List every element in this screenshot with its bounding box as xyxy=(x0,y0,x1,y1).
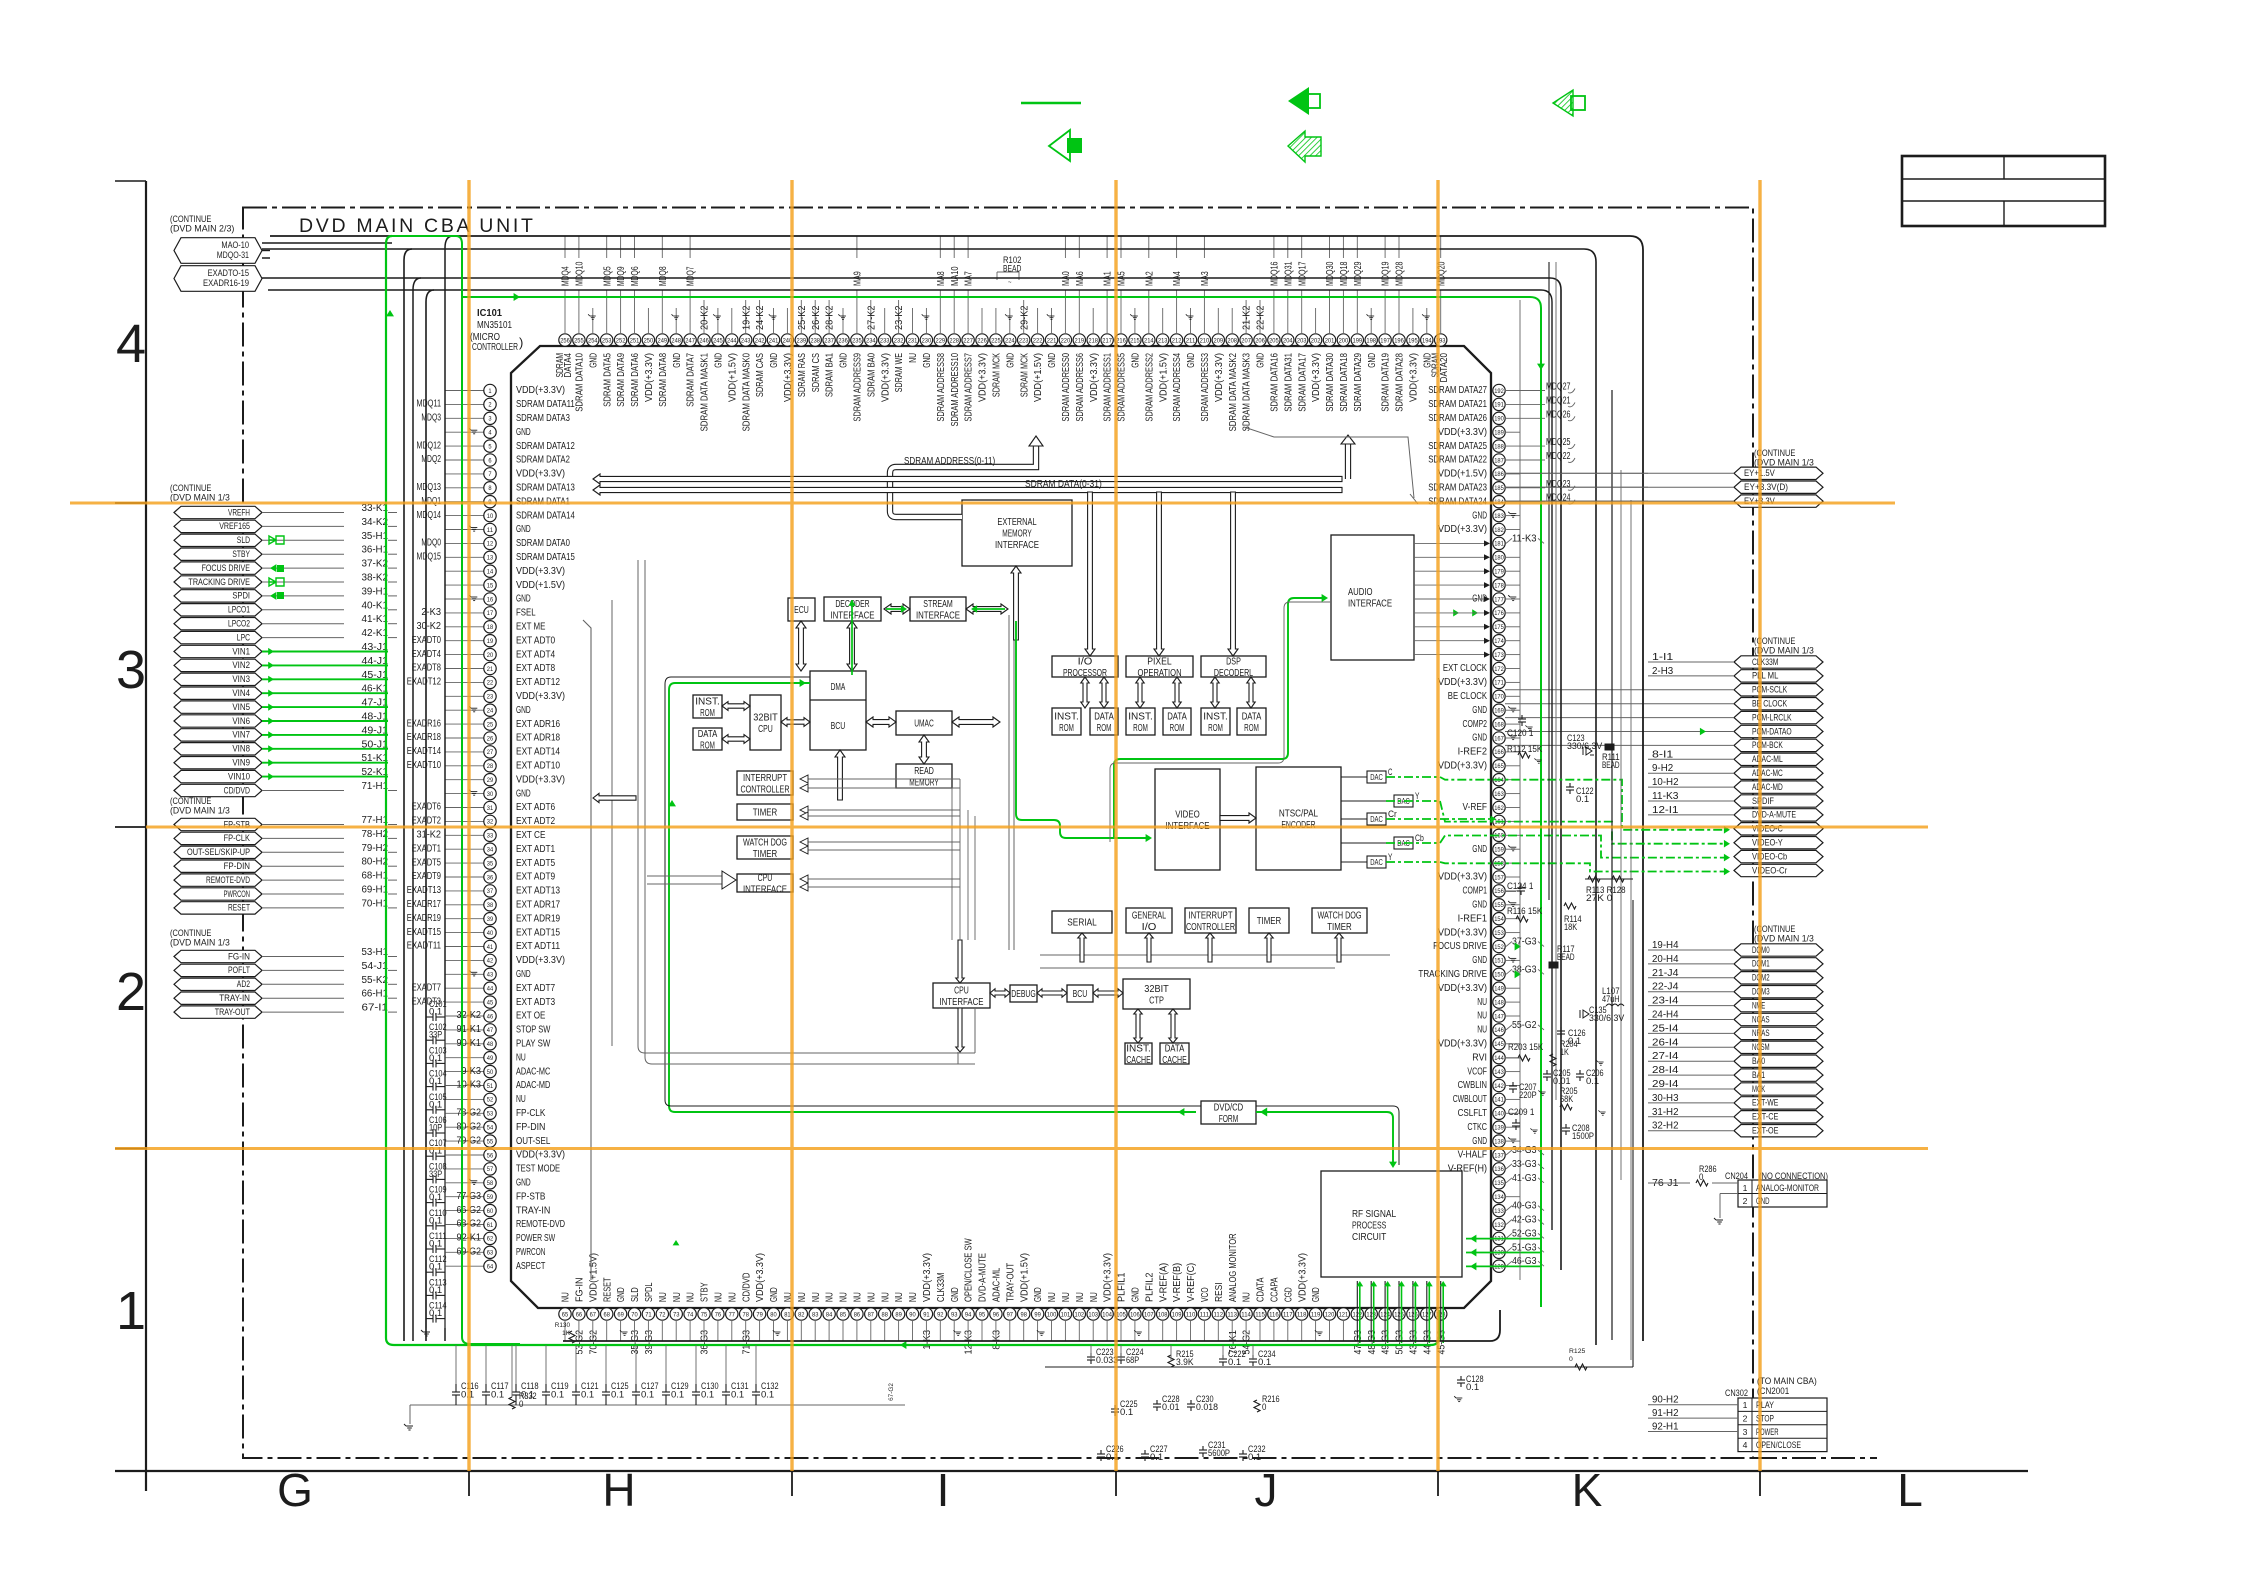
pin 227 xyxy=(962,334,974,346)
svg-text:37: 37 xyxy=(487,888,494,895)
svg-text:47: 47 xyxy=(487,1027,494,1034)
pin 56 xyxy=(484,1149,496,1161)
svg-text:BE CLOCK: BE CLOCK xyxy=(1448,690,1487,702)
svg-text:VDD(+3.3V): VDD(+3.3V) xyxy=(1438,523,1487,535)
svg-text:23-K2: 23-K2 xyxy=(894,305,905,330)
svg-text:EXADR18: EXADR18 xyxy=(407,732,442,743)
svg-text:22-J4: 22-J4 xyxy=(1652,982,1679,993)
svg-text:68: 68 xyxy=(604,1311,611,1318)
svg-text:99: 99 xyxy=(1034,1311,1041,1318)
block TIMER 2 xyxy=(1249,908,1289,933)
svg-text:1K: 1K xyxy=(562,1330,571,1337)
svg-text:32-H2: 32-H2 xyxy=(1652,1121,1679,1132)
connector FOCUS DRIVE xyxy=(174,562,262,574)
pin 151 xyxy=(1493,954,1505,966)
green legend icon open arrow with solid square xyxy=(1049,130,1070,161)
svg-text:209: 209 xyxy=(1214,337,1224,344)
block INST ROM 2 xyxy=(1052,708,1081,735)
svg-text:GND: GND xyxy=(1472,843,1487,855)
svg-text:MDQ22: MDQ22 xyxy=(1546,451,1571,462)
pin 16 xyxy=(484,593,496,605)
svg-text:185: 185 xyxy=(1494,485,1504,492)
svg-text:MN35101: MN35101 xyxy=(477,320,512,331)
svg-text:I: I xyxy=(937,1464,950,1516)
svg-text:SDRAM ADDRESS(0-11): SDRAM ADDRESS(0-11) xyxy=(904,456,995,467)
svg-text:35-H1: 35-H1 xyxy=(362,531,389,542)
svg-text:23: 23 xyxy=(487,694,494,701)
connector MAO-10 / MDQO-31 xyxy=(174,238,262,264)
pin 201 xyxy=(1323,334,1335,346)
connector BA0 xyxy=(1734,1055,1823,1067)
svg-text:GND: GND xyxy=(1186,353,1197,368)
svg-text:MDQ31: MDQ31 xyxy=(1283,261,1294,286)
svg-text:BCU: BCU xyxy=(1073,989,1088,1000)
svg-text:10-H2: 10-H2 xyxy=(1652,777,1679,788)
svg-text:27-K2: 27-K2 xyxy=(866,305,877,330)
svg-text:59: 59 xyxy=(487,1194,494,1201)
svg-text:EXT-CE: EXT-CE xyxy=(1752,1112,1778,1123)
block DAC Cr xyxy=(1367,813,1386,825)
pin 180 xyxy=(1493,551,1505,563)
svg-text:VDD(+3.3V): VDD(+3.3V) xyxy=(978,353,989,402)
svg-text:ROM: ROM xyxy=(1097,723,1112,734)
svg-text:MDQ8: MDQ8 xyxy=(658,266,669,286)
svg-text:VDD(+3.3V): VDD(+3.3V) xyxy=(1297,1253,1308,1302)
svg-text:112: 112 xyxy=(1214,1311,1224,1318)
pin 8 xyxy=(484,482,496,494)
svg-text:READ: READ xyxy=(914,766,934,777)
block VIDEO INTERFACE xyxy=(1155,769,1220,870)
svg-text:EXT ADR17: EXT ADR17 xyxy=(516,899,560,911)
serial/general rails xyxy=(1040,954,1390,956)
svg-text:171: 171 xyxy=(1494,680,1504,687)
svg-text:CPU: CPU xyxy=(954,985,969,996)
pin 25 xyxy=(484,718,496,730)
svg-text:149: 149 xyxy=(1494,986,1504,993)
pin 225 xyxy=(990,334,1002,346)
svg-text:MDQ7: MDQ7 xyxy=(686,266,697,286)
svg-text:134: 134 xyxy=(1494,1194,1504,1201)
pin 47 xyxy=(484,1024,496,1036)
connector VIN5 xyxy=(174,701,262,713)
connector NCAS xyxy=(1734,1013,1823,1025)
svg-text:SPDIF: SPDIF xyxy=(1752,796,1774,807)
connector ADAC-MD xyxy=(1734,781,1823,793)
block 32BIT CPU xyxy=(750,695,781,750)
connector NCSM xyxy=(1734,1041,1823,1053)
svg-text:26-K2: 26-K2 xyxy=(811,305,822,330)
svg-text:29: 29 xyxy=(487,777,494,784)
orange grid vertical 4 xyxy=(1436,180,1439,1471)
bus arrow DEBUG-BCU xyxy=(1037,989,1067,997)
svg-text:0.1: 0.1 xyxy=(1586,1076,1599,1086)
svg-text:0.1: 0.1 xyxy=(1120,1407,1133,1417)
svg-text:2: 2 xyxy=(116,962,146,1022)
pin 237 xyxy=(823,334,835,346)
svg-text:11-K3: 11-K3 xyxy=(1652,791,1679,802)
orange grid vertical 5 xyxy=(1758,180,1761,1471)
svg-text:MDQ27: MDQ27 xyxy=(1546,382,1571,393)
pin 21 xyxy=(484,662,496,674)
pin 50 xyxy=(484,1065,496,1077)
svg-text:EXT ADT13: EXT ADT13 xyxy=(516,885,560,897)
svg-text:SDRAM CS: SDRAM CS xyxy=(811,353,822,392)
svg-text:SDRAM DATA30: SDRAM DATA30 xyxy=(1325,353,1336,412)
svg-text:0.1: 0.1 xyxy=(1150,1452,1163,1462)
pin 251 xyxy=(628,334,640,346)
pin 13 xyxy=(484,551,496,563)
pin 102 xyxy=(1073,1308,1085,1320)
svg-text:NU: NU xyxy=(516,1051,526,1063)
svg-text:NU: NU xyxy=(825,1292,836,1302)
connector TRAY-OUT xyxy=(174,1006,262,1018)
svg-text:EXT-OE: EXT-OE xyxy=(1752,1126,1778,1137)
pin 45 xyxy=(484,996,496,1008)
connector MCK xyxy=(1734,1083,1823,1095)
svg-text:15: 15 xyxy=(487,582,494,589)
svg-text:121: 121 xyxy=(1339,1311,1349,1318)
block DAC C xyxy=(1367,771,1386,783)
svg-text:EXADT13: EXADT13 xyxy=(407,885,442,896)
pin 120 xyxy=(1323,1308,1335,1320)
pin 123 xyxy=(1365,1308,1377,1320)
svg-text:GND: GND xyxy=(1472,954,1487,966)
svg-text:INST.: INST. xyxy=(695,696,720,707)
connector EY+3.3V xyxy=(1734,495,1823,507)
svg-text:ENCODER: ENCODER xyxy=(1281,820,1315,831)
pin 162 xyxy=(1493,801,1505,813)
pin 226 xyxy=(976,334,988,346)
svg-text:EXADR19: EXADR19 xyxy=(407,913,442,924)
pin 197 xyxy=(1379,334,1391,346)
bus arrow head SDRAM ADDRESS up xyxy=(1029,436,1043,446)
pin 153 xyxy=(1493,926,1505,938)
pin 181 xyxy=(1493,537,1505,549)
svg-text:0.1: 0.1 xyxy=(1576,794,1589,804)
pin 155 xyxy=(1493,899,1505,911)
block AUDIO INTERFACE xyxy=(1331,535,1414,660)
pin 214 xyxy=(1143,334,1155,346)
pin 3 xyxy=(484,412,496,424)
svg-text:12-K3: 12-K3 xyxy=(964,1330,975,1355)
svg-text:SPDL: SPDL xyxy=(644,1282,655,1302)
svg-text:104: 104 xyxy=(1102,1311,1112,1318)
svg-text:SDRAM DATA2: SDRAM DATA2 xyxy=(516,454,570,466)
svg-text:77: 77 xyxy=(729,1311,736,1318)
pin 115 xyxy=(1254,1308,1266,1320)
svg-text:EXT ADT12: EXT ADT12 xyxy=(516,676,560,688)
connector VREF165 xyxy=(174,520,262,532)
pin 211 xyxy=(1184,334,1196,346)
svg-text:205: 205 xyxy=(1269,337,1279,344)
svg-text:139: 139 xyxy=(1494,1125,1504,1132)
pin 221 xyxy=(1045,334,1057,346)
svg-text:196: 196 xyxy=(1394,337,1404,344)
pin 148 xyxy=(1493,996,1505,1008)
svg-text:I/O: I/O xyxy=(1142,922,1157,933)
pin 154 xyxy=(1493,913,1505,925)
svg-text:96: 96 xyxy=(993,1311,1000,1318)
small green arrows scattered xyxy=(673,1240,680,1245)
svg-text:9-K3: 9-K3 xyxy=(461,1066,481,1077)
svg-text:NU: NU xyxy=(1477,1024,1487,1036)
pin 106 xyxy=(1129,1308,1141,1320)
pin 101 xyxy=(1059,1308,1071,1320)
block STREAM INTERFACE xyxy=(910,597,966,621)
svg-text:VIN3: VIN3 xyxy=(232,674,250,685)
svg-text:ROM: ROM xyxy=(1059,723,1074,734)
svg-text:143: 143 xyxy=(1494,1069,1504,1076)
svg-text:CD/DVD: CD/DVD xyxy=(741,1273,752,1302)
svg-text:SDRAM WE: SDRAM WE xyxy=(894,353,905,392)
svg-text:177: 177 xyxy=(1494,596,1504,603)
svg-text:113: 113 xyxy=(1227,1311,1237,1318)
svg-text:CIRCUIT: CIRCUIT xyxy=(1352,1232,1386,1243)
svg-text:MDQ28: MDQ28 xyxy=(1395,261,1406,286)
svg-text:21-J4: 21-J4 xyxy=(1652,968,1679,979)
svg-text:24: 24 xyxy=(487,708,494,715)
svg-text:251: 251 xyxy=(630,337,640,344)
svg-text:33-K1: 33-K1 xyxy=(362,503,389,514)
svg-text:GND: GND xyxy=(839,353,850,368)
bus SDRAM DATA long lower xyxy=(593,485,1342,495)
pin 54 xyxy=(484,1121,496,1133)
svg-text:114: 114 xyxy=(1241,1311,1251,1318)
pin 172 xyxy=(1493,662,1505,674)
svg-text:31-K2: 31-K2 xyxy=(417,830,442,841)
block INST ROM 4 xyxy=(1201,708,1230,735)
pin 133 xyxy=(1493,1204,1505,1216)
svg-text:13: 13 xyxy=(487,555,494,562)
svg-text:AD2: AD2 xyxy=(237,979,250,990)
pin 203 xyxy=(1296,334,1308,346)
svg-text:RF SIGNAL: RF SIGNAL xyxy=(1352,1209,1396,1220)
svg-text:ROM: ROM xyxy=(1133,723,1148,734)
svg-text:40-G3: 40-G3 xyxy=(1512,1201,1537,1212)
svg-text:42-K1: 42-K1 xyxy=(362,628,389,639)
svg-text:85: 85 xyxy=(840,1311,847,1318)
svg-text:44-G3: 44-G3 xyxy=(1422,1330,1433,1355)
svg-text:WATCH DOG: WATCH DOG xyxy=(743,837,787,848)
frame zone tick left xyxy=(115,1148,146,1150)
ground of cap column xyxy=(421,1330,430,1336)
pin 66 xyxy=(573,1308,585,1320)
svg-text:18: 18 xyxy=(487,624,494,631)
pin 49 xyxy=(484,1052,496,1064)
svg-text:21: 21 xyxy=(487,666,494,673)
pin 22 xyxy=(484,676,496,688)
svg-text:GND: GND xyxy=(1472,509,1487,521)
pin 224 xyxy=(1004,334,1016,346)
svg-text:2-K3: 2-K3 xyxy=(421,607,441,618)
svg-text:EXT ADT8: EXT ADT8 xyxy=(516,662,555,674)
pin 122 xyxy=(1351,1308,1363,1320)
svg-text:DATA4: DATA4 xyxy=(563,353,574,378)
pin 57 xyxy=(484,1163,496,1175)
svg-text:COMP2: COMP2 xyxy=(1463,718,1488,730)
bus arrow into BCU bottom xyxy=(835,750,845,800)
pin 125 xyxy=(1393,1308,1405,1320)
pin 207 xyxy=(1240,334,1252,346)
svg-text:221: 221 xyxy=(1047,337,1057,344)
svg-text:245: 245 xyxy=(713,337,723,344)
svg-text:DECODERL: DECODERL xyxy=(1214,668,1254,679)
pin 2 xyxy=(484,398,496,410)
svg-text:100: 100 xyxy=(1047,1311,1057,1318)
svg-text:156: 156 xyxy=(1494,888,1504,895)
svg-text:138: 138 xyxy=(1494,1138,1504,1145)
svg-text:0.1: 0.1 xyxy=(671,1390,684,1400)
green arrow pin176 right xyxy=(1472,609,1478,616)
svg-text:SDRAM DATA0: SDRAM DATA0 xyxy=(516,537,570,549)
svg-text:48-G3: 48-G3 xyxy=(1367,1330,1378,1355)
svg-text:0.1: 0.1 xyxy=(761,1390,774,1400)
pin 110 xyxy=(1184,1308,1196,1320)
svg-text:34-G3: 34-G3 xyxy=(1512,1145,1537,1156)
pin 96 xyxy=(990,1308,1002,1320)
svg-text:FORM: FORM xyxy=(1219,1114,1239,1125)
bus SDRAM DATA up arrow right end xyxy=(1345,444,1350,479)
svg-text:LPCO1: LPCO1 xyxy=(228,605,250,616)
svg-text:MDQ0: MDQ0 xyxy=(421,538,441,549)
pin 107 xyxy=(1143,1308,1155,1320)
pin 146 xyxy=(1493,1024,1505,1036)
bus arrow IOPROC-INSTROM xyxy=(1081,677,1089,708)
pin 104 xyxy=(1101,1308,1113,1320)
svg-text:EXT ADR18: EXT ADR18 xyxy=(516,732,560,744)
svg-text:FG-IN: FG-IN xyxy=(228,951,250,962)
svg-text:ADAC-MD: ADAC-MD xyxy=(1752,782,1783,793)
pin 41 xyxy=(484,940,496,952)
svg-text:EXT ADT1: EXT ADT1 xyxy=(516,843,555,855)
pin 233 xyxy=(879,334,891,346)
pin 79 xyxy=(753,1308,765,1320)
connector PWRCON xyxy=(174,888,262,900)
block NTSC/PAL ENCODER xyxy=(1256,767,1341,870)
svg-text:229: 229 xyxy=(936,337,946,344)
pin 134 xyxy=(1493,1191,1505,1203)
svg-text:179: 179 xyxy=(1494,569,1504,576)
svg-text:11-K3: 11-K3 xyxy=(1512,533,1537,544)
svg-text:MDQ21: MDQ21 xyxy=(1546,395,1571,406)
svg-text:5600P: 5600P xyxy=(1208,1448,1230,1458)
pin 152 xyxy=(1493,940,1505,952)
pin 35 xyxy=(484,857,496,869)
svg-text:INTERFACE: INTERFACE xyxy=(1348,599,1392,610)
svg-text:MDQ30: MDQ30 xyxy=(1325,261,1336,286)
pin 95 xyxy=(976,1308,988,1320)
svg-text:GND: GND xyxy=(1131,353,1142,368)
svg-text:218: 218 xyxy=(1088,337,1098,344)
svg-text:NU: NU xyxy=(1075,1292,1086,1302)
svg-text:188: 188 xyxy=(1494,443,1504,450)
svg-text:MDQ25: MDQ25 xyxy=(1546,437,1571,448)
svg-text:BEAD: BEAD xyxy=(1602,760,1620,770)
svg-text:GND: GND xyxy=(616,1287,627,1302)
green arrow down on right green trunk xyxy=(1537,364,1545,370)
pin 40 xyxy=(484,926,496,938)
svg-text:INTERFACE: INTERFACE xyxy=(916,610,960,621)
svg-text:254: 254 xyxy=(588,337,598,344)
svg-text:29-I4: 29-I4 xyxy=(1652,1079,1679,1090)
svg-text:PCM-SCLK: PCM-SCLK xyxy=(1752,685,1788,696)
svg-text:SLD: SLD xyxy=(237,535,250,546)
svg-text:FP-CLK: FP-CLK xyxy=(516,1107,545,1119)
pin 150 xyxy=(1493,968,1505,980)
svg-text:NU: NU xyxy=(1242,1292,1253,1302)
bus arrow INSTROM-CPU xyxy=(722,702,750,711)
pin 39 xyxy=(484,913,496,925)
svg-text:94: 94 xyxy=(965,1311,972,1318)
svg-text:79-H2: 79-H2 xyxy=(362,843,389,854)
svg-text:EXT ADT9: EXT ADT9 xyxy=(516,871,555,883)
svg-text:INST.: INST. xyxy=(1128,711,1153,722)
pin 179 xyxy=(1493,565,1505,577)
svg-text:CONTROLLER: CONTROLLER xyxy=(472,342,518,353)
connector TRAY-IN xyxy=(174,992,262,1004)
svg-text:NU: NU xyxy=(727,1292,738,1302)
connector BA1 xyxy=(1734,1069,1823,1081)
pin 10 xyxy=(484,509,496,521)
block PIXEL OPERATION xyxy=(1126,656,1193,677)
svg-text:70-H1: 70-H1 xyxy=(362,898,389,909)
block READ MEMORY xyxy=(896,764,952,788)
svg-text:53: 53 xyxy=(487,1111,494,1118)
connector SPDI xyxy=(174,590,262,602)
svg-text:C120 1: C120 1 xyxy=(1507,728,1533,738)
svg-text:148: 148 xyxy=(1494,999,1504,1006)
svg-text:VDD(+3.3V): VDD(+3.3V) xyxy=(1438,1038,1487,1050)
pin 229 xyxy=(934,334,946,346)
svg-text:SDRAM DATA29: SDRAM DATA29 xyxy=(1353,353,1364,412)
svg-text:200: 200 xyxy=(1339,337,1349,344)
bus arrow up into block xyxy=(1145,933,1153,962)
orange grid vertical 2 xyxy=(790,180,793,1471)
connector FP-DIN xyxy=(174,860,262,872)
svg-text:41-G3: 41-G3 xyxy=(1512,1173,1537,1184)
svg-text:27: 27 xyxy=(487,749,494,756)
pin 223 xyxy=(1018,334,1030,346)
svg-text:73: 73 xyxy=(673,1311,680,1318)
pin 218 xyxy=(1087,334,1099,346)
svg-text:SDRAM ADDRESS0: SDRAM ADDRESS0 xyxy=(1061,353,1072,422)
svg-text:SDRAM RAS: SDRAM RAS xyxy=(797,353,808,397)
vertical stubs to bottom passives xyxy=(1090,1345,1092,1360)
svg-text:GND: GND xyxy=(516,968,531,980)
svg-text:109: 109 xyxy=(1172,1311,1182,1318)
connector VIN4 xyxy=(174,687,262,699)
connector ADAC-ML xyxy=(1734,753,1823,765)
svg-text:TRAY-IN: TRAY-IN xyxy=(516,1204,550,1216)
connector LPCO2 xyxy=(174,618,262,630)
pin 143 xyxy=(1493,1065,1505,1077)
svg-text:FG-IN: FG-IN xyxy=(575,1278,586,1303)
svg-text:239: 239 xyxy=(797,337,807,344)
svg-text:120: 120 xyxy=(1325,1311,1335,1318)
pin 166 xyxy=(1493,746,1505,758)
pin 193 xyxy=(1435,334,1447,346)
pin 58 xyxy=(484,1177,496,1189)
svg-text:EXADT10: EXADT10 xyxy=(407,760,442,771)
green DAC output routes to VIDEO hexagons xyxy=(1386,777,1726,830)
svg-text:L: L xyxy=(1897,1464,1923,1516)
svg-text:EXADT15: EXADT15 xyxy=(407,927,442,938)
svg-text:40: 40 xyxy=(487,930,494,937)
wire SDRAM DATA to pin 184 xyxy=(1244,427,1418,504)
pin 222 xyxy=(1031,334,1043,346)
svg-text:VIN4: VIN4 xyxy=(232,688,250,699)
svg-text:GND: GND xyxy=(1472,732,1487,744)
